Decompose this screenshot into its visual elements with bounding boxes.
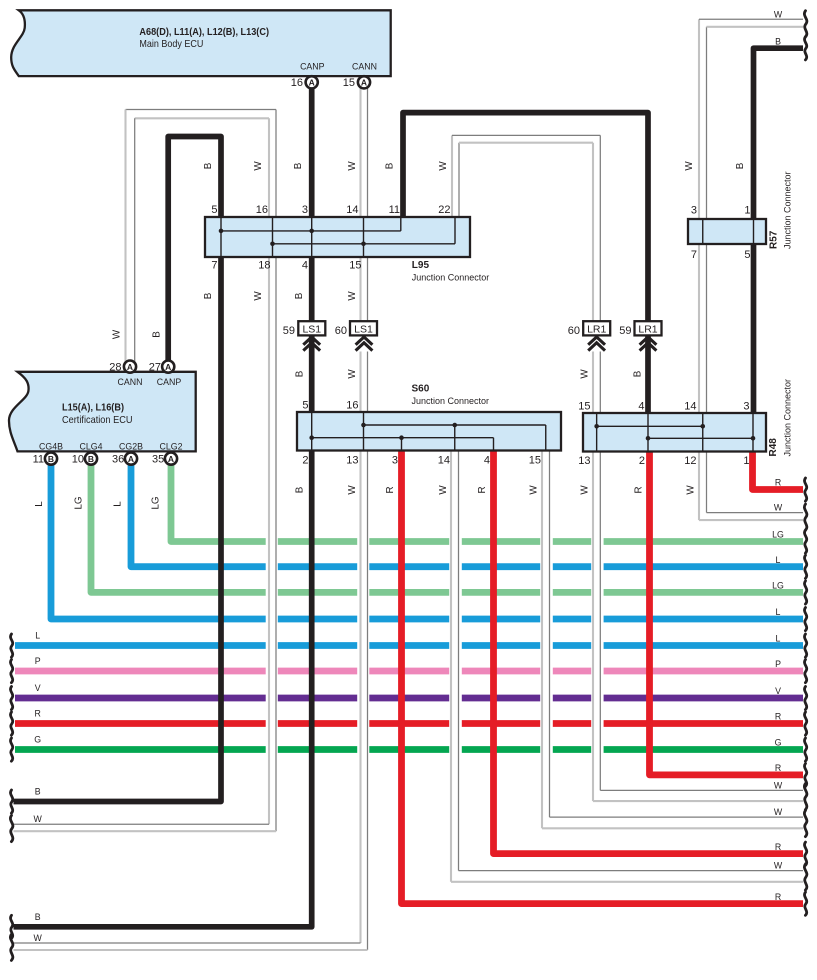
R57 internal wires [703, 220, 754, 243]
wire R48 pin 1 down to right edge (R) [753, 451, 804, 490]
svg-text:Main Body ECU: Main Body ECU [139, 38, 203, 50]
svg-text:Junction Connector: Junction Connector [412, 396, 490, 407]
svg-text:CG4B: CG4B [39, 441, 63, 451]
svg-text:W: W [684, 161, 695, 171]
svg-text:CANP: CANP [300, 61, 325, 71]
svg-text:B: B [35, 787, 41, 797]
svg-text:R: R [35, 709, 41, 719]
svg-text:16: 16 [256, 204, 268, 216]
svg-text:Certification ECU: Certification ECU [62, 414, 133, 426]
wire CANP trunk: Main Body ECU pin 16 through L95/LS1/S60 to left edge (B) [14, 86, 312, 927]
svg-text:3: 3 [743, 401, 749, 413]
svg-text:2: 2 [639, 455, 645, 467]
wire CG4B to right edge (L) [51, 462, 803, 619]
wire S60 pin 3 down to right edge (R) [402, 450, 804, 904]
svg-text:Junction Connector: Junction Connector [783, 171, 794, 249]
svg-text:5: 5 [211, 204, 217, 216]
svg-text:4: 4 [638, 401, 644, 413]
svg-text:V: V [35, 683, 41, 693]
svg-text:B: B [775, 36, 781, 46]
svg-text:Junction Connector: Junction Connector [783, 378, 794, 456]
svg-text:B: B [633, 370, 644, 377]
wire G full width [15, 746, 803, 753]
svg-text:1: 1 [744, 205, 750, 217]
svg-text:B: B [294, 292, 305, 299]
svg-text:W: W [774, 503, 783, 513]
svg-text:R: R [775, 763, 781, 773]
svg-text:W: W [580, 369, 591, 379]
svg-text:13: 13 [346, 455, 358, 467]
svg-text:P: P [775, 659, 781, 669]
svg-text:L: L [34, 501, 45, 507]
svg-text:7: 7 [211, 260, 217, 272]
svg-text:16: 16 [346, 400, 358, 412]
svg-text:W: W [686, 485, 697, 495]
white patch under chevrons for W columns [357, 336, 372, 352]
wire R57 pin 1 up to right edge, and down to R48 pin 3 (B) [754, 48, 804, 413]
svg-text:36: 36 [112, 453, 124, 465]
Certification ECU box L15(A), L16(B) [9, 372, 196, 452]
svg-text:15: 15 [349, 260, 361, 272]
S60 internal wires [309, 413, 545, 450]
svg-text:B: B [203, 292, 214, 299]
wire R48 pin 13 down to right edge (W, double line) [593, 451, 803, 802]
wire L95 pin 11 to R48 pin 4 via LR1 (B) [403, 113, 648, 414]
svg-text:W: W [774, 780, 783, 790]
svg-text:B: B [152, 331, 163, 338]
svg-text:R: R [775, 712, 781, 722]
svg-text:3: 3 [302, 204, 308, 216]
svg-text:28: 28 [109, 362, 121, 374]
svg-text:W: W [438, 485, 449, 495]
wire V full width [15, 695, 803, 702]
svg-text:L: L [776, 555, 781, 565]
svg-text:11: 11 [389, 204, 400, 216]
wire L95 col 18 down to left edge (W, double line) [14, 256, 277, 831]
svg-text:15: 15 [578, 401, 590, 413]
svg-text:R57: R57 [769, 230, 780, 249]
svg-text:7: 7 [691, 249, 697, 261]
svg-text:3: 3 [392, 455, 398, 467]
Main Body ECU box A68(D), L11(A), L12(B), L13(C) [11, 10, 391, 76]
svg-text:W: W [112, 329, 123, 339]
svg-text:15: 15 [343, 77, 355, 89]
svg-text:W: W [774, 9, 783, 19]
svg-text:5: 5 [302, 400, 308, 412]
svg-text:15: 15 [529, 455, 541, 467]
svg-text:R: R [775, 842, 781, 852]
svg-text:11: 11 [33, 453, 44, 465]
wire L95 pin 22 loop to R48 pin 15 via LR1 (W, double line) [452, 135, 600, 413]
wire S60 pin 4 down to right edge (R) [494, 450, 804, 854]
svg-text:4: 4 [484, 455, 490, 467]
junction connector R57 box [688, 219, 766, 244]
svg-text:L95: L95 [412, 260, 430, 271]
svg-text:B: B [48, 454, 54, 464]
svg-text:16: 16 [291, 77, 303, 89]
svg-text:W: W [347, 485, 358, 495]
wire R57 pin 7 to R48 pin 14 (W, double line) [699, 243, 707, 414]
svg-text:10: 10 [72, 453, 84, 465]
svg-text:B: B [295, 486, 306, 493]
svg-text:R48: R48 [768, 438, 779, 457]
wire R full width [15, 720, 803, 727]
svg-text:P: P [35, 656, 41, 666]
svg-text:1: 1 [743, 455, 749, 467]
junction connector R48 box [583, 413, 766, 452]
svg-text:W: W [347, 291, 358, 301]
wire S60 pin 15 down to right edge (W, double line) [542, 450, 803, 829]
svg-text:G: G [34, 735, 41, 745]
svg-text:LR1: LR1 [587, 324, 606, 336]
svg-text:18: 18 [258, 260, 270, 272]
wire R48 pin 2 down to right edge (R) [650, 451, 804, 775]
svg-text:W: W [774, 807, 783, 817]
svg-text:W: W [34, 814, 43, 824]
svg-text:5: 5 [744, 249, 750, 261]
svg-text:CLG2: CLG2 [160, 441, 183, 451]
svg-text:LG: LG [772, 530, 784, 540]
svg-text:A: A [127, 362, 133, 372]
svg-text:27: 27 [149, 362, 161, 374]
svg-text:2: 2 [302, 455, 308, 467]
svg-text:35: 35 [152, 453, 164, 465]
svg-text:CANN: CANN [352, 61, 377, 71]
svg-text:B: B [735, 162, 746, 169]
svg-text:R: R [775, 478, 781, 488]
svg-text:A: A [361, 78, 367, 88]
wire R57 pin 3 up to right edge (W, double line) [699, 19, 803, 220]
svg-text:A68(D), L11(A), L12(B), L13(C): A68(D), L11(A), L12(B), L13(C) [139, 27, 269, 38]
svg-text:L: L [113, 501, 124, 507]
junction connector S60 box [297, 412, 561, 451]
svg-text:L: L [776, 607, 781, 617]
svg-text:4: 4 [302, 260, 308, 272]
svg-text:CG2B: CG2B [119, 441, 143, 451]
svg-text:L: L [35, 631, 40, 641]
svg-text:Junction Connector: Junction Connector [412, 273, 490, 284]
R48 internal wires [594, 414, 755, 451]
wire CG2B to right edge (L) [131, 462, 803, 567]
wire CANP branch: L95 pin 5 to Certification ECU pin 27 (B) [168, 137, 221, 362]
svg-text:W: W [253, 291, 264, 301]
svg-text:W: W [580, 485, 591, 495]
svg-text:3: 3 [691, 205, 697, 217]
svg-text:B: B [203, 162, 214, 169]
junction connector L95 box [205, 217, 470, 257]
svg-text:59: 59 [283, 325, 295, 337]
svg-text:LR1: LR1 [638, 324, 657, 336]
svg-text:59: 59 [619, 325, 631, 337]
svg-text:LS1: LS1 [302, 324, 321, 336]
svg-text:L15(A), L16(B): L15(A), L16(B) [62, 403, 124, 414]
wire CANN branch: L95 col 16/18 to Certification ECU pin 28 (W, double line) [126, 110, 277, 362]
svg-text:A: A [168, 454, 174, 464]
svg-text:B: B [88, 454, 94, 464]
wire S60 pin 14 down to right edge (W, double line) [451, 450, 803, 882]
svg-text:LG: LG [772, 581, 784, 591]
svg-text:V: V [775, 686, 781, 696]
wire R48 pin 12 down to right edge (W, double line) [699, 451, 803, 521]
svg-text:22: 22 [438, 204, 450, 216]
svg-text:A: A [128, 454, 134, 464]
wire L full width [15, 642, 803, 649]
svg-text:W: W [438, 161, 449, 171]
svg-text:14: 14 [346, 204, 358, 216]
svg-text:W: W [529, 485, 540, 495]
svg-text:LS1: LS1 [354, 324, 373, 336]
svg-text:13: 13 [578, 455, 590, 467]
svg-text:L: L [776, 634, 781, 644]
svg-text:14: 14 [438, 455, 450, 467]
svg-text:R: R [477, 486, 488, 493]
svg-text:W: W [253, 161, 264, 171]
svg-text:CLG4: CLG4 [80, 441, 103, 451]
svg-text:R: R [634, 486, 645, 493]
svg-text:A: A [309, 78, 315, 88]
svg-text:R: R [385, 486, 396, 493]
svg-text:G: G [775, 738, 782, 748]
svg-text:R: R [775, 892, 781, 902]
svg-text:W: W [774, 861, 783, 871]
svg-text:A: A [165, 362, 171, 372]
svg-text:B: B [295, 370, 306, 377]
svg-text:B: B [384, 162, 395, 169]
L95 internal wires [219, 218, 455, 256]
svg-text:S60: S60 [412, 384, 430, 395]
wire CLG2 to right edge (LG) [171, 462, 803, 542]
svg-text:W: W [34, 933, 43, 943]
svg-text:LG: LG [151, 496, 162, 509]
svg-text:60: 60 [568, 325, 580, 337]
svg-text:B: B [35, 912, 41, 922]
svg-text:12: 12 [684, 455, 696, 467]
svg-text:W: W [347, 369, 358, 379]
wire L95 pin 7 down to left edge (B) [14, 256, 222, 802]
wire P full width [15, 668, 803, 675]
svg-text:60: 60 [335, 325, 347, 337]
svg-text:14: 14 [684, 401, 696, 413]
svg-text:LG: LG [74, 496, 85, 509]
svg-text:CANN: CANN [118, 377, 143, 387]
wire CANN trunk: Main Body ECU pin 15 through L95/LS1/S60 to left edge (W, double line) [14, 86, 368, 950]
svg-text:B: B [293, 162, 304, 169]
svg-text:CANP: CANP [157, 377, 182, 387]
svg-text:W: W [347, 161, 358, 171]
wire CLG4 to right edge (LG) [91, 462, 803, 592]
